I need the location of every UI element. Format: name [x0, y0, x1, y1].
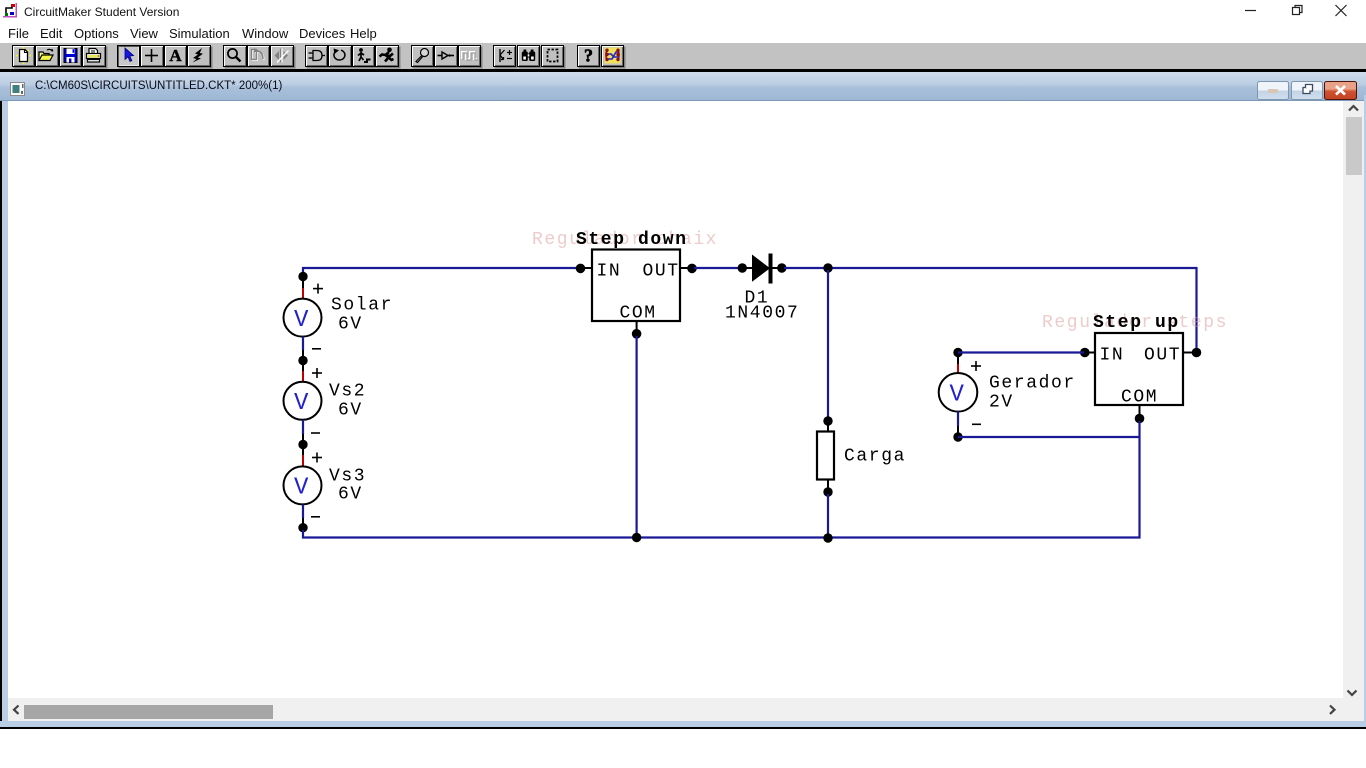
- pin: U2 COM stub: [1139, 405, 1141, 416]
- toolbar: help button: [577, 45, 601, 67]
- toolbar: macro/IC button: [541, 45, 565, 67]
- wire: generator negative to U2 COM branch: [958, 436, 1141, 438]
- node: battery positive junction: [298, 272, 307, 281]
- voltage source Vs2 6V: [284, 363, 323, 441]
- separator under toolbar: [0, 69, 1366, 72]
- mdi close button: [1324, 81, 1357, 100]
- wire: U2 COM down to ground rail corner: [1138, 421, 1140, 539]
- node: ground rail junction under U1: [632, 533, 641, 542]
- diode D1 1N4007: [744, 254, 780, 284]
- svg-text:IN: IN: [1100, 346, 1125, 366]
- toolbar: new file button: [12, 45, 36, 67]
- pin: U1 COM stub: [636, 321, 638, 331]
- node: ground rail junction under load: [823, 533, 832, 542]
- toolbar: run button: [375, 45, 399, 67]
- mdi restore button: [1291, 81, 1323, 100]
- node: U1 IN pin dot: [576, 264, 586, 274]
- toolbar: digital mode button: [305, 45, 329, 67]
- pin: U1 OUT stub: [680, 267, 690, 269]
- node: junction between Vs2 and Vs3: [298, 440, 307, 449]
- wire: U1 OUT to diode anode: [694, 267, 741, 269]
- label: Step down: [576, 230, 688, 250]
- toolbar: mirror button (disabled): [270, 45, 294, 67]
- node: load bottom dot: [823, 487, 832, 496]
- svg-text:V: V: [294, 390, 309, 417]
- wire: down from top rail to load: [827, 270, 829, 420]
- label: Step up: [1093, 313, 1180, 333]
- bottom frame strips: [1343, 697, 1364, 721]
- wire: top rail from battery stack to step-down IN: [302, 267, 581, 269]
- svg-text:Vs3: Vs3: [329, 467, 366, 487]
- node: load branch junction on top rail: [823, 263, 832, 272]
- toolbar: open file button: [35, 45, 59, 67]
- svg-text:IN: IN: [597, 261, 622, 281]
- application title bar: [0, 0, 1366, 22]
- svg-text:Step up: Step up: [1093, 313, 1180, 333]
- MDI document title bar: [0, 72, 1366, 101]
- regulator U2 step-up box: [1095, 333, 1183, 408]
- resistor Carga: [817, 424, 834, 489]
- svg-text:2V: 2V: [989, 393, 1014, 413]
- window buttons: [1240, 0, 1366, 22]
- svg-text:Carga: Carga: [844, 447, 906, 467]
- toolbar: print button: [82, 45, 106, 67]
- svg-text:Step down: Step down: [576, 230, 688, 250]
- node: U2 COM pin dot: [1135, 414, 1145, 424]
- node: U1 COM pin dot: [632, 329, 642, 339]
- toolbar: step button: [352, 45, 376, 67]
- svg-text:Vs2: Vs2: [329, 382, 366, 402]
- toolbar: test point button: [434, 45, 458, 67]
- wire: top rail right corner down to U2 OUT: [1195, 267, 1197, 351]
- node: U2 IN pin dot: [1080, 348, 1090, 358]
- label Carga: [844, 447, 906, 467]
- svg-text:OUT: OUT: [643, 261, 680, 281]
- document canvas: [0, 101, 1366, 697]
- toolbar: delete tool (lightning) button: [187, 45, 211, 67]
- toolbar: wire tool button: [140, 45, 164, 67]
- app icon: [3, 3, 19, 19]
- svg-text:Solar: Solar: [331, 296, 393, 316]
- label Solar 6V: [331, 296, 393, 335]
- node: generator positive junction: [953, 348, 962, 357]
- toolbar: text tool button: [164, 45, 188, 67]
- node: load top dot: [823, 416, 832, 425]
- svg-text:COM: COM: [620, 304, 657, 324]
- toolbar: rotate button (disabled): [247, 45, 271, 67]
- pin: U2 IN stub: [1087, 352, 1095, 354]
- label Vs3 6V: [329, 467, 366, 505]
- voltage source Solar 6V: [284, 279, 324, 357]
- svg-text:6V: 6V: [338, 401, 363, 421]
- pin: U1 IN stub: [583, 267, 592, 269]
- svg-text:COM: COM: [1121, 388, 1158, 408]
- svg-text:6V: 6V: [338, 315, 363, 335]
- toolbar: arrow tool button (pressed): [117, 45, 141, 67]
- svg-text:OUT: OUT: [1144, 346, 1181, 366]
- svg-text:1N4007: 1N4007: [725, 304, 799, 324]
- label Vs2 6V: [329, 382, 366, 421]
- regulator U1 step-down box: [592, 250, 680, 324]
- menu bar: [0, 22, 1366, 43]
- toolbar: tracelogic button: [601, 45, 625, 67]
- node: U1 OUT pin dot: [687, 264, 697, 274]
- wire: U1 COM down to ground rail: [635, 336, 637, 537]
- toolbar: device params button: [493, 45, 517, 67]
- document icon: [10, 82, 27, 97]
- node: junction between Solar and Vs2: [298, 356, 307, 365]
- wire: left rail top corner vertical: [302, 267, 304, 278]
- voltage source Gerador 2V: [939, 355, 981, 433]
- horizontal scrollbar: [8, 698, 1343, 721]
- voltage source Vs3 6V: [284, 447, 323, 524]
- ghost label: Regulador (moved red text): [532, 230, 718, 250]
- svg-text:V: V: [294, 475, 309, 502]
- toolbar: probe button: [411, 45, 435, 67]
- svg-text:V: V: [294, 307, 309, 334]
- pin: U2 OUT stub: [1183, 352, 1194, 354]
- node: U2 OUT pin dot: [1192, 348, 1202, 358]
- node: battery negative junction: [298, 523, 307, 532]
- vertical scrollbar: [1343, 101, 1364, 697]
- label D1 1N4007: [725, 288, 799, 323]
- toolbar: save button: [59, 45, 83, 67]
- wire: generator to U2 IN: [958, 351, 1084, 353]
- node: diode anode dot: [738, 263, 747, 272]
- mdi minimize button: [1257, 81, 1289, 100]
- ghost label: Regulador step up (red text): [1042, 313, 1228, 333]
- svg-text:6V: 6V: [338, 485, 363, 505]
- node: diode cathode dot: [777, 263, 786, 272]
- wire: load to ground rail: [827, 494, 829, 537]
- toolbar: zoom button: [223, 45, 247, 67]
- toolbar: [0, 43, 1366, 69]
- svg-text:Gerador: Gerador: [989, 374, 1076, 394]
- wire: bottom ground rail: [302, 536, 1141, 538]
- toolbar: waveforms button (disabled): [458, 45, 482, 67]
- svg-text:V: V: [950, 382, 965, 409]
- node: generator negative junction: [953, 432, 962, 441]
- wire: diode cathode along top rail to right corner: [784, 267, 1197, 269]
- toolbar: find button: [517, 45, 541, 67]
- label Gerador 2V: [989, 374, 1076, 413]
- wire: bottom-left corner: [302, 530, 304, 539]
- toolbar: reset button: [328, 45, 352, 67]
